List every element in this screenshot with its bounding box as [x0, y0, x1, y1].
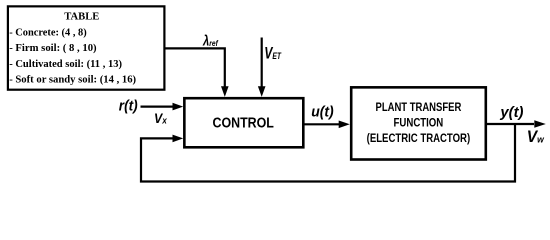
svg-text:r(t): r(t) [119, 99, 138, 115]
block CONTROL [184, 98, 303, 147]
arrowhead feedback into CONTROL left [173, 135, 184, 143]
arrowhead V_ET into CONTROL top [258, 86, 266, 97]
svg-text:FUNCTION: FUNCTION [394, 116, 444, 130]
wire V_ET down [261, 38, 263, 87]
table box [8, 6, 165, 89]
block plant transfer function [351, 87, 486, 159]
arrowhead r(t) into CONTROL left [173, 103, 184, 111]
svg-text:PLANT TRANSFER: PLANT TRANSFER [376, 100, 462, 114]
svg-text:u(t): u(t) [311, 105, 334, 121]
arrowhead u(t) into plant left [339, 121, 350, 129]
feedback wire from output via bottom to CONTROL [141, 124, 515, 182]
svg-text:- Firm soil: ( 8 , 10): - Firm soil: ( 8 , 10) [9, 42, 97, 54]
svg-text:y(t): y(t) [499, 105, 523, 121]
svg-text:- Concrete: (4 , 8): - Concrete: (4 , 8) [9, 27, 87, 39]
wire u(t) CONTROL to plant [303, 123, 339, 125]
svg-text:TABLE: TABLE [64, 11, 99, 23]
wire y(t) output [486, 123, 534, 125]
arrowhead y(t) output [534, 120, 546, 128]
svg-text:(ELECTRIC TRACTOR): (ELECTRIC TRACTOR) [367, 131, 471, 145]
arrowhead lambda into CONTROL top [221, 86, 229, 97]
svg-text:CONTROL: CONTROL [213, 116, 275, 132]
wire r(t) into CONTROL [141, 105, 174, 107]
svg-text:- Soft or sandy soil: (14 , 16: - Soft or sandy soil: (14 , 16) [9, 73, 136, 85]
wire table to lambda corner [165, 48, 224, 86]
svg-text:- Cultivated soil: (11 , 13): - Cultivated soil: (11 , 13) [9, 58, 122, 70]
